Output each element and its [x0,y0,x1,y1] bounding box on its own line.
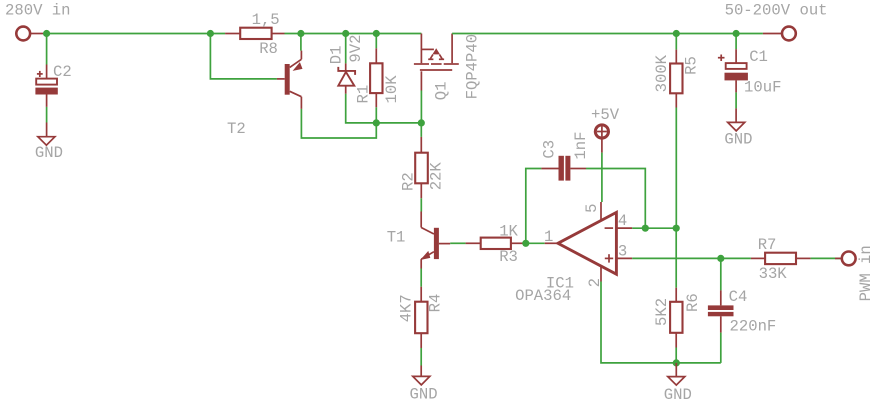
svg-text:GND: GND [35,144,63,162]
wire gate net to R2 [420,123,422,137]
svg-text:10K: 10K [383,75,401,104]
svg-text:R7: R7 [758,236,777,254]
svg-text:5: 5 [583,204,601,213]
junction T2 emitter [297,30,304,37]
wire R7 to PWM pin [811,257,841,259]
wire opamp pin2 to gnd rail [601,282,721,363]
resistor R4 [415,287,427,348]
resistor R1 [370,34,382,108]
svg-text:C1: C1 [749,48,768,66]
ground GND (C1) [728,108,745,130]
transistor Q1 [414,34,459,91]
svg-text:R6: R6 [684,293,702,312]
svg-text:C2: C2 [53,63,72,81]
svg-text:GND: GND [724,131,752,149]
capacitor C1 [718,34,748,93]
svg-text:10uF: 10uF [744,78,781,96]
svg-text:C3: C3 [540,140,558,159]
svg-text:Q1: Q1 [432,81,450,100]
svg-text:33K: 33K [759,265,788,283]
wire C3 feedback left [526,169,542,244]
pin 280V in [16,27,43,41]
supply +5V [591,106,620,153]
svg-text:+5V: +5V [591,106,620,124]
wire pin3 net to C4 [720,258,722,290]
wire T1 emitter down [420,269,422,287]
junction gnd rail [673,359,680,366]
resistor R5 [670,34,682,108]
svg-text:R2: R2 [399,172,417,191]
wire pin4 net to R6 [675,228,677,288]
svg-text:22K: 22K [428,162,446,191]
wire Q1 gate down [420,91,422,123]
svg-text:GND: GND [664,386,692,402]
svg-text:280V in: 280V in [5,1,71,19]
wire R3 to opamp output [526,242,545,244]
junction divider to pin4 [673,225,680,232]
pin 50-200V out [763,27,796,41]
ground GND (opamp) [668,363,685,385]
resistor R3 [466,238,526,249]
wire T2 collector to gate net [301,109,376,138]
wire C3 feedback right [586,169,645,229]
svg-text:3: 3 [618,243,627,261]
junction C1 tap [733,30,740,37]
wire +5V to opamp pin5 [601,153,603,202]
junction gate net left [373,119,380,126]
junction output node [522,240,529,247]
svg-text:9V2: 9V2 [347,35,365,63]
junction R1 tap [373,30,380,37]
resistor R8 [225,28,284,39]
wire R2 to T1 collector [420,198,422,211]
svg-text:1K: 1K [499,222,518,240]
junction T2 base tap [207,30,214,37]
svg-text:R4: R4 [427,294,445,313]
resistor R6 [670,288,682,348]
transistor T2 [277,51,303,109]
svg-text:GND: GND [410,385,438,402]
wire opamp pin4 net [632,227,676,229]
junction gate net right [418,119,425,126]
svg-text:R8: R8 [259,40,278,58]
junction C3 to pin4 [642,225,649,232]
svg-text:220nF: 220nF [730,318,777,336]
svg-text:FQP4P40: FQP4P40 [463,34,481,100]
ground GND (C2) [38,123,55,146]
junction C4 tap [717,255,724,262]
wire D1 to gate net [346,94,422,123]
svg-text:5K2: 5K2 [653,298,671,326]
wire R5 to pin4 net [675,108,677,229]
transistor T1 [420,212,450,269]
op-amp IC1 [545,202,633,282]
resistor R2 [415,137,428,198]
wire T2 base branch [210,34,277,79]
ground GND (R4) [413,366,430,385]
wire T2 emitter up [300,34,302,51]
svg-text:4: 4 [618,212,627,230]
svg-text:50-200V out: 50-200V out [725,1,828,19]
wire R1 bottom [375,107,377,123]
wire 280V rail left [43,33,225,35]
wire C4 to gnd rail [720,333,722,363]
wire 280V rail right of R8 [285,33,422,35]
svg-text:D1: D1 [327,45,345,64]
svg-text:1nF: 1nF [572,132,590,160]
wire C1 to gnd [735,92,737,108]
svg-text:R1: R1 [355,85,373,104]
capacitor C3 [541,156,586,181]
capacitor C4 [708,290,734,332]
svg-text:C4: C4 [729,288,748,306]
junction R5 tap [673,30,680,37]
svg-text:T2: T2 [227,120,246,138]
wire R4 to gnd [420,348,422,366]
svg-text:R3: R3 [499,248,518,266]
svg-text:300K: 300K [653,54,671,92]
wire R6 to gnd rail [675,348,677,363]
junction D1 tap [342,30,349,37]
svg-text:R5: R5 [683,56,701,75]
svg-text:1,5: 1,5 [252,11,280,29]
wire out rail [452,33,763,35]
wire T1 base to R3 [450,242,465,244]
diode D1 zener [338,34,355,94]
svg-text:T1: T1 [387,228,406,246]
resistor R7 [751,253,811,264]
wire opamp pin3 net [632,257,751,259]
svg-text:1: 1 [544,228,553,246]
svg-text:OPA364: OPA364 [515,287,571,305]
svg-text:PWM in: PWM in [857,245,875,301]
capacitor C2 [35,34,57,107]
pin PWM in [835,252,856,266]
junction C2 tap [43,30,50,37]
svg-text:4K7: 4K7 [398,294,416,322]
wire C2 to gnd [46,107,48,123]
